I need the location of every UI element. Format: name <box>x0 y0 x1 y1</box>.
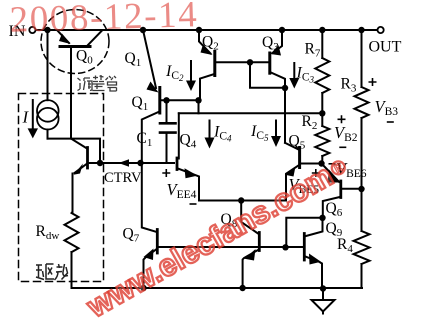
minus VB3 <box>387 121 394 123</box>
svg-text:Q4: Q4 <box>180 132 197 151</box>
svg-text:Q5: Q5 <box>289 133 306 152</box>
svg-text:R7: R7 <box>305 40 321 59</box>
svg-text:Q6: Q6 <box>326 200 343 219</box>
text 驱动 hand drawn <box>36 264 68 280</box>
transistor Q0 <box>57 30 102 139</box>
arrow current I direction <box>28 100 38 138</box>
svg-text:R2: R2 <box>302 113 318 132</box>
wire CTRV <box>89 162 175 164</box>
transistor Q7 <box>142 163 158 288</box>
arrow IC3 <box>289 63 299 89</box>
resistor R4 <box>354 189 370 288</box>
transistor Q9 <box>304 218 322 288</box>
transistor Q5 <box>285 143 319 201</box>
resistor Rdw <box>65 213 79 252</box>
svg-text:IC3: IC3 <box>296 65 315 85</box>
wire Rdw to bottom rail <box>71 252 73 288</box>
ground <box>312 289 335 314</box>
wire Q1 base <box>161 99 199 101</box>
minus VEE4 <box>190 203 197 205</box>
capacitor C1 <box>160 100 176 163</box>
svg-text:CTRV: CTRV <box>104 170 142 186</box>
arrow on CTRV wire <box>119 159 130 166</box>
arrow IC2 <box>186 61 196 91</box>
svg-text:OUT: OUT <box>369 39 402 56</box>
transistor Q6 <box>322 164 362 218</box>
wire Q3 base to collector tie <box>250 62 285 87</box>
svg-text:IC5: IC5 <box>250 123 269 143</box>
svg-text:Rdw: Rdw <box>36 223 60 242</box>
svg-text:R3: R3 <box>341 75 357 94</box>
text 调整管 hand drawn <box>78 75 117 91</box>
svg-text:Q2: Q2 <box>202 34 219 53</box>
wire base rail Q7 Q8 Q9 <box>159 246 304 248</box>
svg-text:Q1: Q1 <box>132 94 149 113</box>
plus VBE6 <box>312 169 320 177</box>
arrow IC4 <box>205 121 215 149</box>
transistor Qd driver <box>71 139 88 213</box>
plus minus marks <box>162 78 393 204</box>
svg-text:VEE4: VEE4 <box>167 180 197 201</box>
transistor Q8 <box>241 201 259 289</box>
dashed circle around Q0 <box>41 10 109 74</box>
watermark www.elecfans.com diagonal <box>80 149 353 320</box>
svg-text:R4: R4 <box>337 236 353 255</box>
svg-text:Q1: Q1 <box>125 50 142 69</box>
svg-text:Q0: Q0 <box>76 48 93 67</box>
svg-text:IC4: IC4 <box>213 124 232 144</box>
watermark date 2008-12-14 <box>9 0 199 41</box>
transistor Q3 <box>270 30 285 143</box>
wire Q2 Q3 base tie <box>216 61 269 63</box>
wire bottom rail <box>72 287 363 289</box>
svg-text:Q3: Q3 <box>262 34 279 53</box>
arrow IC5 <box>271 121 281 148</box>
resistor R3 <box>355 30 369 189</box>
wire Q6col to Q9base <box>286 218 322 248</box>
current source I <box>37 30 59 139</box>
resistor R7 <box>315 30 329 113</box>
transistor Q2 <box>199 30 215 100</box>
minus VB2 <box>339 146 346 148</box>
plus VEE4 <box>162 169 170 177</box>
wire current source to CTRV <box>48 139 101 163</box>
svg-text:I: I <box>22 108 30 127</box>
transistor Q1 <box>142 30 160 163</box>
svg-text:C1: C1 <box>137 130 153 149</box>
resistor R2 <box>315 113 329 163</box>
minus VBE6 <box>329 163 336 165</box>
svg-text:VB2: VB2 <box>334 123 358 144</box>
plus VB2 <box>338 115 346 123</box>
wire top rail <box>36 29 377 31</box>
transistor Q4 <box>177 113 199 200</box>
svg-text:IC2: IC2 <box>165 63 184 83</box>
wire stub Q2col to y113 <box>198 100 200 113</box>
wire comp node y113 <box>179 112 322 114</box>
svg-text:2008-12-14: 2008-12-14 <box>9 0 199 41</box>
dashed box driver block <box>19 94 104 282</box>
node OUT terminal <box>378 27 384 33</box>
svg-text:Q7: Q7 <box>123 226 140 245</box>
plus VB3 <box>369 78 377 86</box>
wire VEE4 net y200 <box>199 200 286 202</box>
node IN terminal <box>29 27 35 33</box>
svg-text:VB3: VB3 <box>375 97 399 118</box>
